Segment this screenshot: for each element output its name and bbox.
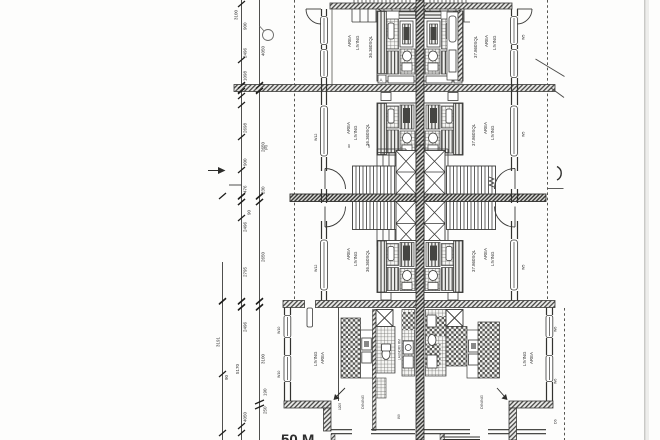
svg-text:90: 90 bbox=[224, 374, 229, 380]
S3 left living text bbox=[346, 248, 370, 272]
heavy central party wall band B bbox=[290, 194, 546, 202]
tick marks L2 bbox=[256, 82, 263, 310]
svg-text:UP: UP bbox=[367, 144, 371, 148]
svg-text:2496: 2496 bbox=[243, 47, 248, 58]
S2 robe wall strip bbox=[458, 103, 463, 155]
window labels bbox=[314, 35, 526, 272]
svg-text:LAUNDRY RM: LAUNDRY RM bbox=[398, 339, 402, 360]
dimension line L2 bbox=[259, 0, 261, 440]
top exterior wall bbox=[330, 3, 512, 9]
S4 left toilet bbox=[382, 349, 390, 360]
S4 left interior wall bbox=[373, 310, 377, 431]
svg-text:4050: 4050 bbox=[261, 45, 266, 56]
S4 right cupboard column bbox=[467, 330, 480, 378]
door leaf band C bbox=[307, 308, 313, 327]
S1 left living text bbox=[347, 35, 373, 58]
svg-text:37.860SQL: 37.860SQL bbox=[471, 249, 476, 272]
svg-text:36.360SQL: 36.360SQL bbox=[365, 123, 370, 146]
svg-text:W10: W10 bbox=[277, 371, 281, 378]
dimension line L1 bbox=[241, 0, 243, 440]
S1 porch edge line bbox=[331, 9, 333, 85]
svg-text:190: 190 bbox=[263, 388, 268, 396]
windows left wall bbox=[320, 16, 329, 291]
svg-text:LIVING: LIVING bbox=[490, 125, 495, 140]
S3 left bathroom bbox=[377, 241, 416, 293]
S1 robe wall strip bbox=[458, 11, 463, 81]
top-right corner door arc bbox=[517, 9, 532, 24]
S4 left laundry column bbox=[402, 310, 415, 377]
S3 fridge boxes bbox=[381, 293, 391, 301]
dimension line L3 bbox=[222, 262, 224, 440]
leader line near band B bbox=[229, 184, 242, 186]
svg-text:5170: 5170 bbox=[235, 363, 240, 374]
top-left corner door arc bbox=[306, 9, 321, 24]
left stair upper bbox=[353, 166, 402, 194]
boundary dashed line right upper bbox=[547, 0, 549, 308]
svg-text:476: 476 bbox=[243, 185, 248, 193]
svg-text:D6: D6 bbox=[554, 419, 558, 424]
short datum line right bbox=[548, 188, 564, 190]
svg-text:230: 230 bbox=[261, 186, 266, 194]
party wall band A bbox=[234, 85, 555, 92]
svg-text:37.860SQL: 37.860SQL bbox=[471, 123, 476, 146]
svg-text:90: 90 bbox=[247, 209, 252, 215]
S4 left entry pier bbox=[324, 408, 332, 431]
S4 left entry arrow bbox=[336, 388, 345, 397]
windows right wall bbox=[510, 16, 519, 291]
svg-text:W5: W5 bbox=[522, 265, 526, 270]
svg-text:AREA: AREA bbox=[347, 35, 352, 47]
central spine wall bbox=[416, 0, 424, 440]
top fence row bbox=[354, 0, 466, 3]
S4 right exterior wall bbox=[547, 308, 553, 402]
svg-text:DINING: DINING bbox=[479, 395, 484, 409]
door arc right upper bbox=[495, 169, 516, 190]
svg-text:250: 250 bbox=[263, 406, 268, 414]
S2 fridge boxes bbox=[381, 93, 391, 101]
core top closet row bbox=[377, 149, 448, 166]
left stair lower bbox=[353, 202, 402, 230]
svg-text:LIVING: LIVING bbox=[353, 125, 358, 140]
svg-text:DINING: DINING bbox=[360, 395, 365, 409]
svg-text:AREA: AREA bbox=[483, 248, 488, 260]
S2 right bathroom bbox=[424, 103, 463, 155]
S4 right fixture column bbox=[426, 310, 447, 377]
svg-text:W12: W12 bbox=[314, 265, 318, 272]
svg-text:AREA: AREA bbox=[483, 122, 488, 134]
S1 right robe closet bbox=[447, 12, 458, 80]
svg-text:2650: 2650 bbox=[261, 251, 266, 262]
S3 robe wall strip bbox=[458, 241, 463, 293]
right stair upper bbox=[447, 166, 496, 194]
S4 left living room wall bbox=[338, 308, 340, 402]
S3 right living text bbox=[471, 248, 495, 272]
S4 left bath tiles bbox=[376, 327, 395, 374]
svg-text:37.860SQL: 37.860SQL bbox=[473, 35, 478, 58]
shaft X boxes upper bbox=[396, 151, 445, 195]
right stair lower bbox=[447, 202, 496, 230]
S1 closet row braces bbox=[352, 9, 470, 22]
boundary dashed line left bbox=[294, 0, 296, 302]
boundary dashed line right lower bbox=[564, 308, 566, 440]
svg-text:LIVING: LIVING bbox=[355, 35, 360, 50]
svg-text:3100: 3100 bbox=[234, 9, 239, 20]
svg-text:AREA: AREA bbox=[320, 352, 325, 364]
svg-text:W5: W5 bbox=[522, 35, 526, 40]
S4 right windows bbox=[545, 315, 554, 382]
S4 right entry step wall bbox=[509, 401, 553, 408]
svg-text:50 M: 50 M bbox=[281, 432, 314, 440]
S4 right living text bbox=[522, 351, 534, 366]
S4 right entry arrow bbox=[497, 388, 505, 397]
svg-text:4050: 4050 bbox=[243, 411, 248, 422]
svg-text:AREA: AREA bbox=[346, 122, 351, 134]
svg-text:2496: 2496 bbox=[243, 321, 248, 332]
svg-text:LIVING: LIVING bbox=[522, 351, 527, 366]
below-wall stubs bbox=[331, 434, 335, 440]
S4 left shower X box bbox=[376, 310, 393, 327]
S4 left living text bbox=[313, 351, 325, 366]
svg-text:36.360SQL: 36.360SQL bbox=[365, 249, 370, 272]
svg-text:W5: W5 bbox=[522, 132, 526, 137]
shaft X boxes lower bbox=[396, 202, 445, 246]
svg-text:W12: W12 bbox=[314, 134, 318, 141]
svg-text:3191: 3191 bbox=[216, 336, 221, 347]
right exterior wall upper bbox=[512, 9, 518, 301]
svg-text:LIVING: LIVING bbox=[313, 351, 318, 366]
S4 left windows bbox=[283, 315, 292, 382]
svg-text:AREA: AREA bbox=[529, 352, 534, 364]
left exterior wall upper bbox=[322, 9, 327, 301]
S2 right living text bbox=[471, 122, 495, 146]
break symbol on L2 bbox=[255, 400, 264, 409]
svg-text:W9: W9 bbox=[397, 414, 401, 419]
S2 left living text bbox=[346, 122, 370, 146]
S1 right living text bbox=[473, 35, 497, 58]
svg-text:900: 900 bbox=[243, 22, 248, 30]
door arc left upper bbox=[325, 169, 346, 190]
svg-text:2698: 2698 bbox=[243, 122, 248, 133]
core bottom closet row bbox=[377, 230, 448, 247]
svg-text:36.360SQL: 36.360SQL bbox=[368, 35, 373, 58]
S4 right entry pier bbox=[509, 408, 517, 440]
break slash 2 bbox=[551, 88, 564, 98]
S4 left kitchen tiles bbox=[341, 318, 361, 378]
door opening in band C bbox=[305, 300, 316, 308]
svg-text:AREA: AREA bbox=[484, 35, 489, 47]
svg-text:LIVING: LIVING bbox=[490, 251, 495, 266]
svg-text:(8): (8) bbox=[263, 144, 268, 150]
S2 left bathroom bbox=[377, 103, 416, 155]
S3 right bathroom bbox=[424, 241, 463, 293]
svg-text:1098: 1098 bbox=[243, 70, 248, 81]
svg-text:2795: 2795 bbox=[243, 266, 248, 277]
S4 left hall tiles strip bbox=[376, 378, 386, 398]
svg-text:W6: W6 bbox=[554, 379, 558, 384]
right annotations: break slash 1 bbox=[536, 59, 565, 77]
S1 left bathroom bbox=[377, 11, 416, 83]
spine wall through core bbox=[416, 145, 424, 250]
svg-text:AREA: AREA bbox=[346, 248, 351, 260]
scanner streak right edge bbox=[644, 0, 646, 440]
svg-text:2496: 2496 bbox=[243, 221, 248, 232]
S1 right bathroom bbox=[424, 11, 463, 83]
S4 window labels bbox=[277, 327, 558, 424]
tick clusters over bands bbox=[219, 83, 263, 311]
S4 right kitchen tiles B bbox=[478, 322, 500, 378]
svg-text:LIVING: LIVING bbox=[492, 35, 497, 50]
svg-text:W10: W10 bbox=[277, 327, 281, 334]
bracket symbol bbox=[557, 167, 561, 181]
spring zigzag symbol bbox=[489, 177, 494, 187]
S4 left entry step wall bbox=[284, 401, 331, 408]
tick marks L3 bbox=[219, 193, 226, 436]
S4 right kitchen tiles A bbox=[446, 327, 467, 367]
S4 left exterior wall bbox=[285, 308, 291, 402]
svg-text:W6: W6 bbox=[554, 327, 558, 332]
grid bubble circle bbox=[263, 30, 274, 41]
bottom wall segments bbox=[331, 430, 546, 434]
tick marks L1 bbox=[219, 1, 264, 436]
door arc right lower bbox=[495, 207, 516, 228]
svg-text:3100: 3100 bbox=[261, 353, 266, 364]
door arc left lower bbox=[325, 207, 346, 228]
datum arrow bbox=[208, 170, 218, 172]
party wall band C bbox=[283, 301, 555, 308]
svg-text:1205: 1205 bbox=[338, 403, 342, 410]
svg-text:900: 900 bbox=[243, 158, 248, 166]
svg-text:LIVING: LIVING bbox=[353, 251, 358, 266]
S4 right shower X box bbox=[446, 310, 463, 327]
dimension texts bbox=[216, 9, 269, 422]
S4 left stove column bbox=[361, 330, 373, 378]
